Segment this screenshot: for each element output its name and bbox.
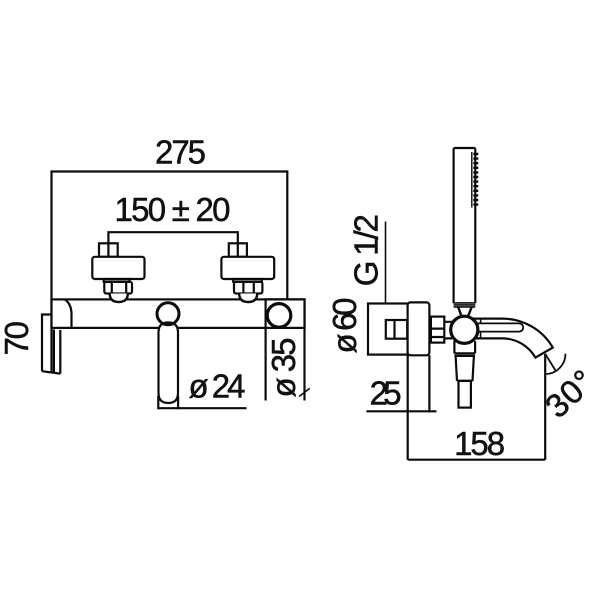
svg-text:25: 25	[370, 374, 402, 411]
svg-text:158: 158	[454, 425, 505, 462]
valve stem left	[99, 243, 118, 256]
hose segment 3	[459, 381, 471, 408]
svg-text:30°: 30°	[538, 362, 600, 425]
hose segment 2	[456, 356, 474, 381]
holder bands	[454, 303, 476, 307]
handshower handle	[454, 148, 476, 303]
svg-text:70: 70	[0, 321, 35, 356]
ø24 dimension line	[158, 407, 247, 409]
30 degree arc	[545, 354, 565, 374]
ø24 extension lines	[158, 396, 178, 409]
valve flange left	[104, 279, 130, 282]
nut side	[431, 317, 444, 343]
valve nut facets left	[112, 282, 126, 294]
mixer body bar	[52, 299, 305, 328]
spout capsule front	[159, 323, 179, 404]
G1/2 leader line	[385, 222, 387, 321]
svg-text:ø 35: ø 35	[265, 338, 302, 398]
svg-text:275: 275	[155, 134, 206, 171]
svg-text:ø 60: ø 60	[326, 298, 363, 354]
holder neck	[458, 307, 471, 315]
spout side	[473, 319, 553, 358]
valve nut left	[104, 282, 132, 294]
valve flange right	[233, 279, 262, 282]
valve nut facets right	[243, 282, 253, 294]
bar end circle ø35	[267, 304, 291, 328]
valve nut right	[234, 282, 262, 294]
bar end box	[266, 299, 305, 328]
handshower nozzle dashes	[473, 153, 478, 208]
wall plate side	[408, 302, 430, 355]
valve circle side	[451, 316, 478, 343]
svg-text:150 ± 20: 150 ± 20	[115, 191, 231, 228]
neck to valve	[444, 322, 452, 339]
spout inner slot	[478, 323, 524, 331]
spout circle front	[157, 303, 179, 325]
valve dome right	[239, 294, 257, 303]
valve body right	[221, 257, 274, 279]
valve body left	[92, 257, 144, 279]
wall box square	[368, 304, 408, 355]
svg-text:G 1/2: G 1/2	[347, 214, 384, 286]
ø35 extension lines	[266, 328, 305, 401]
dimension 150±20 line	[108, 232, 237, 261]
30 degree radius line	[545, 354, 555, 371]
valve dome left	[110, 294, 128, 303]
spout root joint	[480, 319, 482, 339]
handle wedge divider	[65, 299, 72, 328]
handle blade front	[42, 315, 60, 374]
valve stem right	[229, 243, 247, 256]
nut side facets	[431, 329, 444, 337]
dimension 158 lines	[408, 354, 546, 460]
handshower nozzle strip edge	[471, 152, 473, 208]
hose segment 1	[454, 341, 475, 356]
union divider	[393, 320, 395, 339]
ø35 tick	[299, 388, 310, 396]
svg-text:ø 24: ø 24	[189, 368, 246, 405]
dimension 25 lines	[366, 355, 436, 460]
wall box inner union	[386, 320, 407, 339]
dimension 275 line	[52, 172, 288, 329]
